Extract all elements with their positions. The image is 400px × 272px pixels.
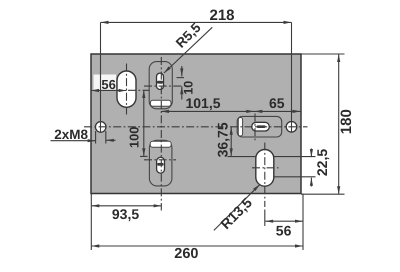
- extension line M8 left over mask: [100, 75, 102, 91]
- svg-text:10: 10: [181, 81, 195, 95]
- dimension 22,5: [310, 149, 312, 158]
- centerline vertical big oval: [264, 143, 266, 208]
- bottom pocket outline: [149, 140, 172, 186]
- bottom slot inner mark: [157, 163, 163, 166]
- svg-text:180: 180: [338, 109, 355, 134]
- big oval slot: [256, 150, 274, 187]
- dimension 260: [91, 245, 303, 247]
- dimension 56 left: [91, 90, 127, 92]
- centerline horizontal top slot arc center: [144, 85, 182, 87]
- leader R5.5: [164, 27, 212, 73]
- svg-text:22,5: 22,5: [314, 149, 330, 176]
- svg-text:36,75: 36,75: [215, 122, 231, 157]
- svg-text:R5,5: R5,5: [173, 20, 204, 51]
- dimension 93,5: [91, 205, 161, 207]
- extension line M8 right up: [291, 22, 293, 132]
- leader R13,5: [214, 184, 260, 230]
- horizontal pocket outline: [237, 116, 282, 137]
- centerline horizontal bottom slot arc center: [144, 159, 176, 161]
- dimension 10: [181, 66, 183, 76]
- svg-text:218: 218: [209, 7, 234, 24]
- dimension 36,75: [230, 127, 232, 157]
- bottom slot: [157, 157, 165, 173]
- extension line y176.8: [274, 176, 316, 178]
- M8 tangent extension lines: [95, 131, 97, 144]
- horizontal slot: [252, 122, 270, 131]
- bottom pocket white bar: [150, 141, 171, 147]
- centerline horizontal row1: [128, 89, 150, 91]
- dimension 100: [143, 90, 145, 156]
- dimension 56 left text mask: [94, 75, 117, 90]
- svg-text:R13,5: R13,5: [217, 194, 255, 232]
- dimension 180: [338, 54, 340, 194]
- svg-text:101,5: 101,5: [185, 95, 220, 111]
- dimension 56 bottom: [265, 220, 303, 222]
- svg-text:56: 56: [101, 77, 115, 92]
- centerline vertical pockets column: [160, 57, 162, 211]
- svg-text:65: 65: [269, 95, 285, 111]
- centerline vertical adjustment slot: [254, 114, 256, 141]
- extension bottom left: [90, 194, 92, 251]
- svg-text:100: 100: [126, 127, 141, 148]
- extension bottom right: [302, 194, 304, 251]
- extension line y156 segs: [140, 155, 148, 157]
- centerline vertical left oval: [126, 64, 128, 115]
- extension line M8 left up: [100, 22, 102, 132]
- top slot inner mark: [157, 81, 163, 84]
- svg-text:2xM8: 2xM8: [54, 127, 88, 142]
- M8 hole left: [95, 122, 106, 133]
- extension 180 top: [301, 53, 345, 55]
- top pocket white bar: [150, 100, 171, 106]
- centerline horizontal M8 row: [84, 126, 308, 128]
- horizontal pocket white bar: [238, 118, 242, 137]
- svg-text:260: 260: [174, 246, 198, 262]
- dimension 218: [101, 21, 292, 23]
- top slot R5.5: [157, 73, 164, 89]
- centerline horizontal big oval: [252, 167, 279, 169]
- svg-text:56: 56: [276, 222, 292, 238]
- extension 180 bottom: [301, 193, 345, 195]
- dimension 101,5 / 65 line: [161, 110, 301, 112]
- M8 hole right: [286, 122, 297, 133]
- top pocket outline: [149, 62, 172, 109]
- horizontal slot inner mark: [257, 125, 266, 128]
- svg-text:93,5: 93,5: [112, 206, 139, 222]
- plate body: [91, 54, 301, 194]
- left oval slot: [117, 71, 136, 107]
